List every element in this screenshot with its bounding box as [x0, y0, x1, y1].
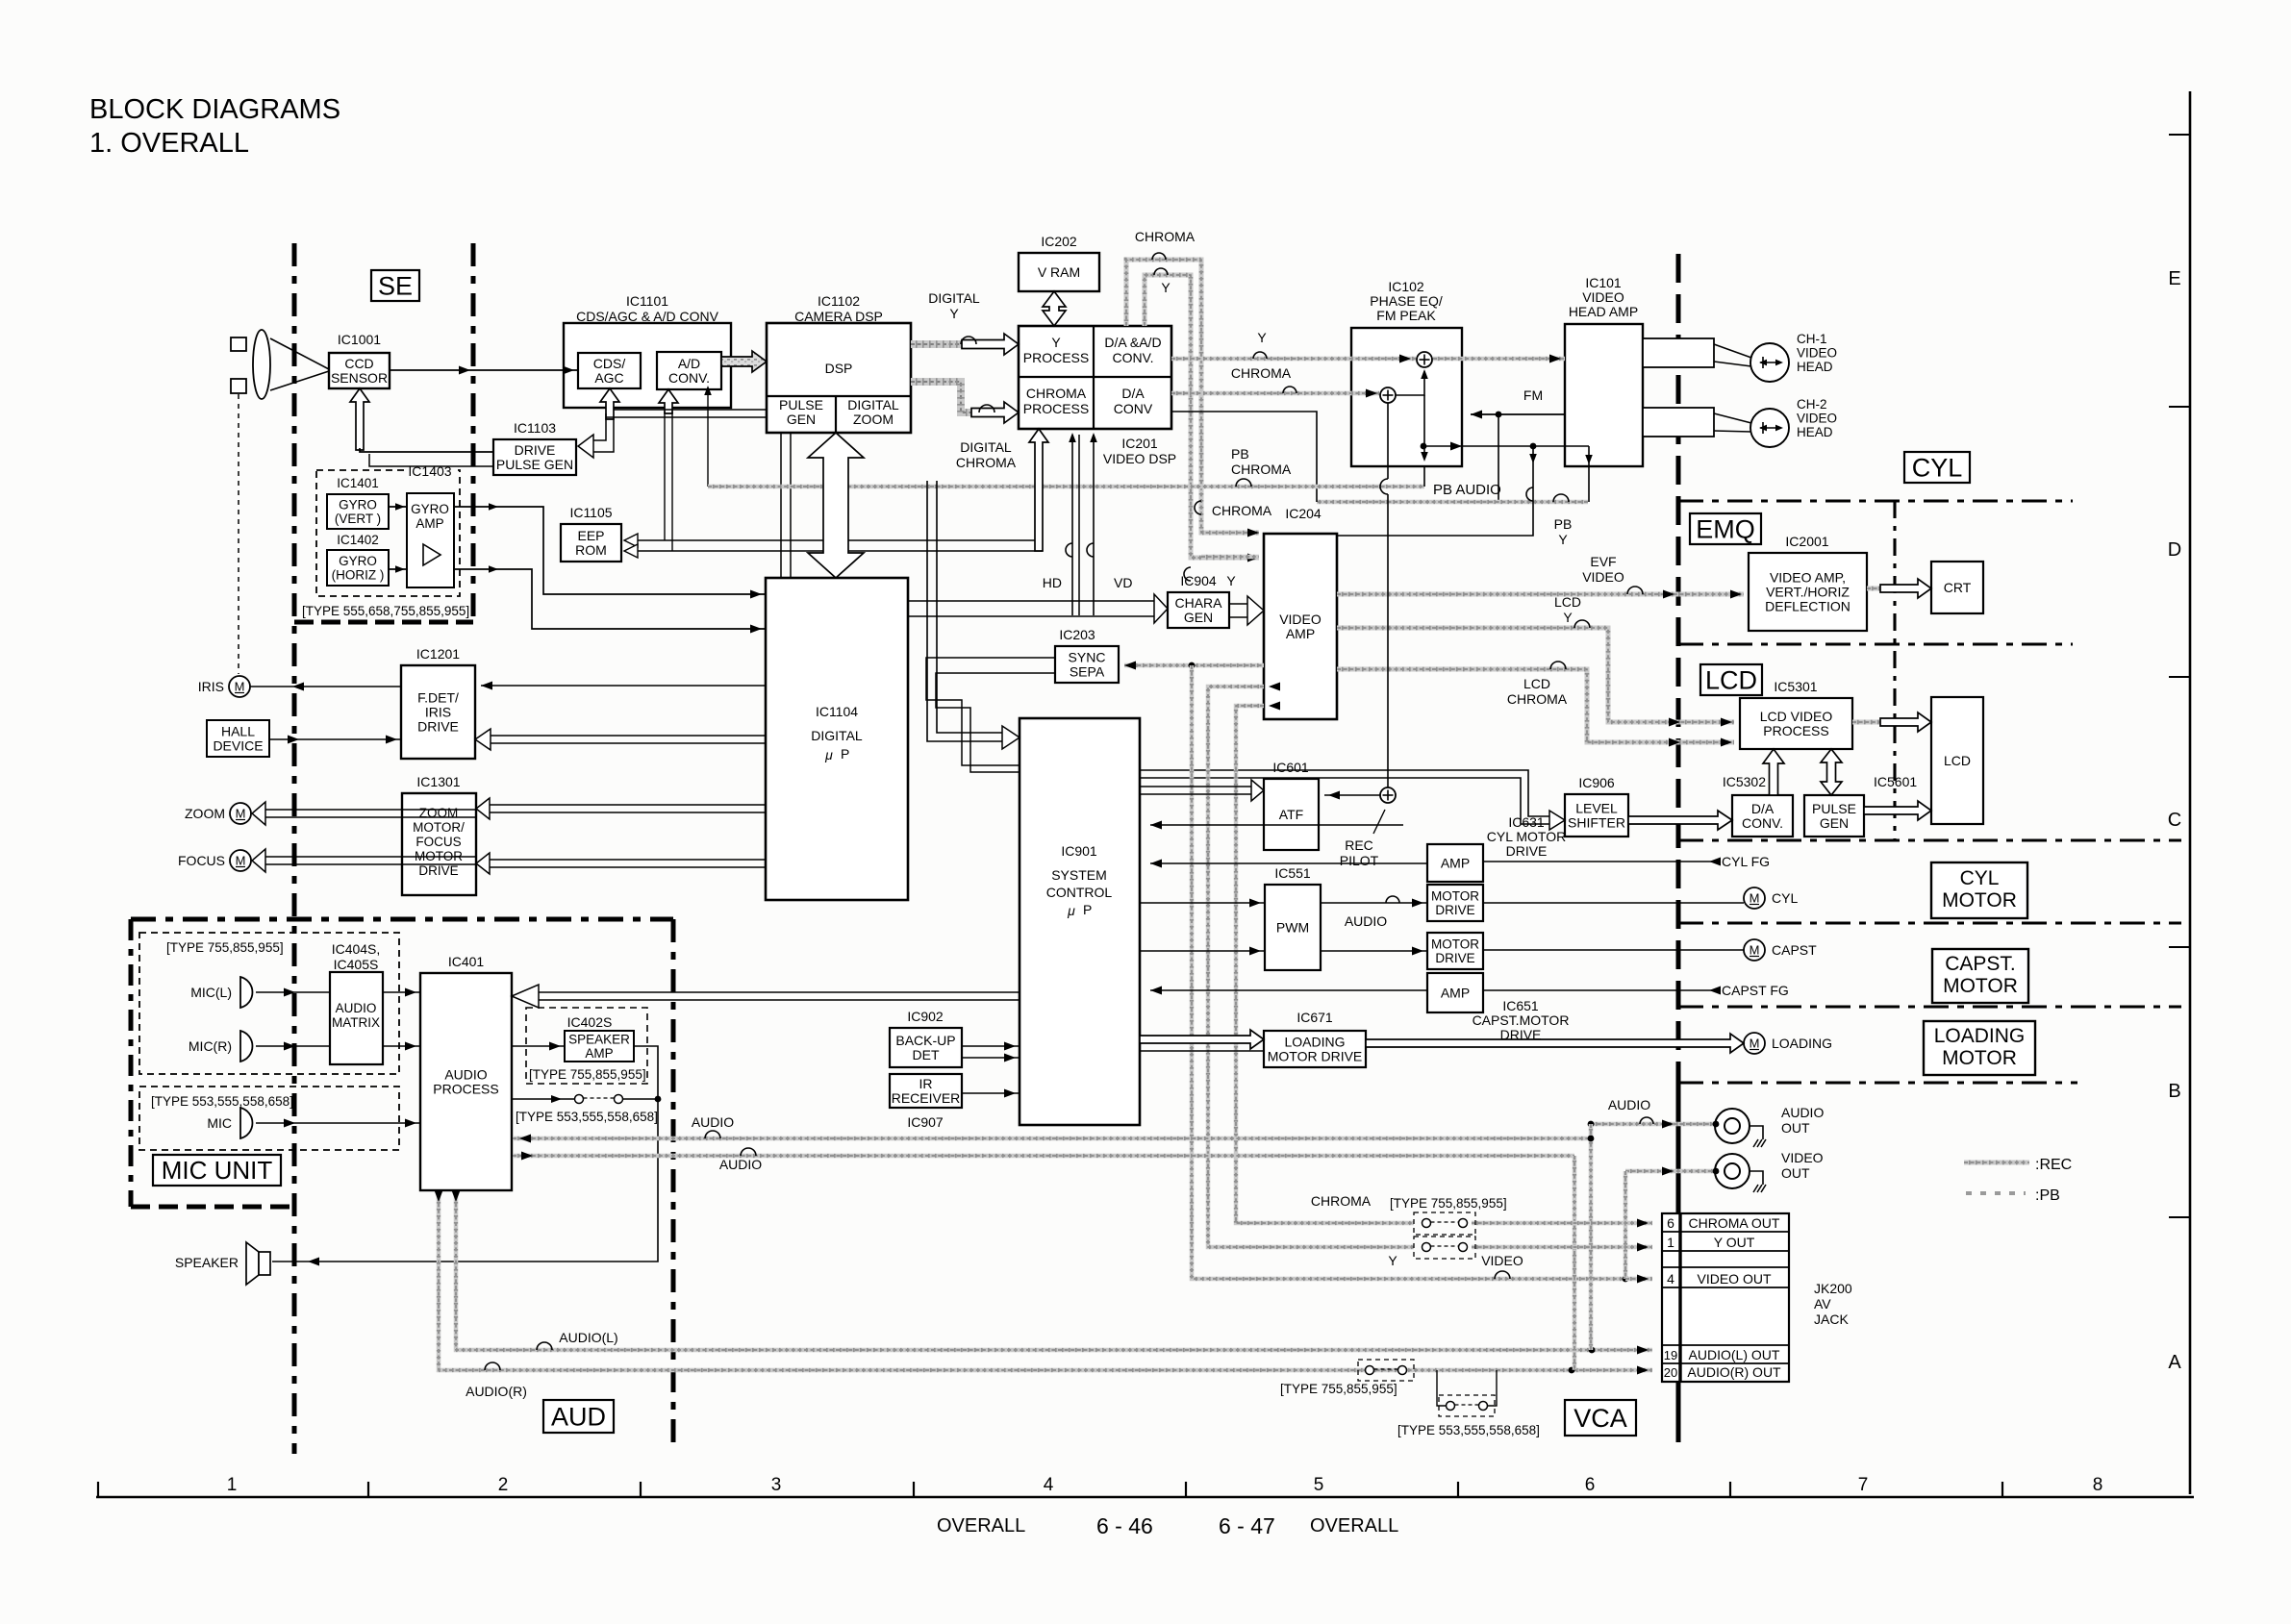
svg-text:CH-2: CH-2	[1797, 397, 1827, 412]
summing circle rec pilot	[1380, 787, 1396, 803]
svg-text:CONV.: CONV.	[1112, 350, 1153, 365]
svg-text:IC907: IC907	[907, 1114, 944, 1130]
ground at audio out	[1750, 1126, 1766, 1147]
svg-text:ATF: ATF	[1279, 807, 1303, 822]
svg-text:IC102: IC102	[1388, 279, 1424, 294]
label IC5302	[1723, 774, 1766, 789]
svg-text:PB: PB	[1554, 516, 1573, 532]
svg-text:DET: DET	[913, 1047, 940, 1062]
svg-text:IC1201: IC1201	[416, 646, 460, 662]
section border CAPST/LOADING divider	[1678, 1005, 2181, 1008]
hollow arrow into EEP ROM lower	[624, 544, 638, 558]
bus audio out feed	[1588, 1120, 1720, 1129]
mic symbol MIC	[207, 1108, 252, 1138]
connector CH-2 VIDEO HEAD	[1750, 397, 1837, 447]
svg-text:3: 3	[771, 1475, 782, 1495]
motor CAPST	[1744, 939, 1817, 961]
wire speaker amp out	[272, 1046, 661, 1266]
right frame with row ticks	[2169, 91, 2190, 1494]
section label MIC UNIT	[153, 1155, 281, 1186]
block IC1101 CDS/AGC & A/D CONV outer	[564, 293, 731, 408]
block IC204 VIDEO AMP	[1264, 506, 1337, 719]
label AUDIO line1	[692, 1114, 734, 1138]
svg-text:VCA: VCA	[1573, 1404, 1627, 1433]
svg-text:CHROMA: CHROMA	[1026, 386, 1087, 401]
svg-text:CYL: CYL	[1960, 867, 2000, 889]
svg-text:AUDIO: AUDIO	[1608, 1097, 1650, 1112]
svg-text:CDS/: CDS/	[593, 356, 626, 371]
svg-text:CHROMA: CHROMA	[956, 455, 1017, 470]
svg-text:CAPST FG: CAPST FG	[1722, 983, 1789, 998]
svg-text:LCD: LCD	[1523, 676, 1550, 691]
svg-text:FM PEAK: FM PEAK	[1376, 308, 1436, 323]
bus AP bottom to AUDIO L	[452, 1190, 1653, 1355]
svg-text:1: 1	[227, 1475, 238, 1495]
svg-text:4: 4	[1044, 1475, 1054, 1495]
hollow arrow CDS shaft into DRIVE PULSE GEN	[578, 413, 614, 458]
svg-text:CONV.: CONV.	[1742, 815, 1783, 831]
bus LCD CHROMA	[1337, 669, 1734, 747]
label CHROMA out line	[1311, 1193, 1372, 1209]
bus DIGITAL Y	[911, 334, 1019, 355]
svg-text:LCD: LCD	[1554, 594, 1581, 610]
svg-text:CHROMA: CHROMA	[1507, 691, 1568, 707]
svg-text:MOTOR: MOTOR	[1942, 889, 2017, 912]
block IC601 ATF	[1264, 760, 1319, 850]
svg-text:SPEAKER: SPEAKER	[568, 1032, 630, 1046]
wire F.DET to IC1104	[481, 682, 766, 690]
svg-text:AUDIO(L) OUT: AUDIO(L) OUT	[1689, 1347, 1780, 1362]
label AUDIO line2	[719, 1148, 762, 1172]
bus Y line sum to IC101	[1433, 355, 1565, 363]
svg-text:LOADING: LOADING	[1934, 1025, 2026, 1047]
label AUDIO pwm	[1345, 896, 1399, 929]
wire inside IC102 down	[1421, 395, 1428, 462]
svg-text:DIGITAL: DIGITAL	[811, 728, 863, 743]
svg-text:IC651: IC651	[1502, 998, 1539, 1013]
svg-text:CRT: CRT	[1944, 580, 1972, 595]
svg-text:LOADING: LOADING	[1284, 1034, 1345, 1049]
wire IC901 loading lower	[1140, 1050, 1264, 1052]
label TYPE 553 switch row	[516, 1110, 658, 1124]
svg-text:6: 6	[1585, 1475, 1596, 1495]
wire VD	[1087, 433, 1097, 615]
wire ir receiver to IC901	[962, 1089, 1020, 1098]
wire amp1 to IC901	[1150, 860, 1427, 868]
svg-text:PROCESS: PROCESS	[1763, 723, 1828, 738]
section border SE bottom	[294, 620, 473, 625]
svg-text:IRIS: IRIS	[425, 704, 451, 719]
bus chroma out line end	[1472, 1219, 1652, 1228]
svg-text:VIDEO: VIDEO	[1279, 612, 1322, 627]
svg-text:P: P	[841, 746, 849, 762]
block IC1402 GYRO (HORIZ)	[327, 533, 389, 586]
svg-text:AMP: AMP	[585, 1046, 613, 1061]
wire backup det to IC901 a	[962, 1042, 1020, 1051]
svg-text:LOADING: LOADING	[1772, 1036, 1832, 1051]
label Y on line	[1253, 330, 1267, 359]
label Y top	[1154, 268, 1171, 295]
bus y out line end	[1472, 1243, 1652, 1252]
footer left OVERALL 6 - 46	[937, 1513, 1153, 1538]
svg-text:CHROMA: CHROMA	[1231, 462, 1292, 477]
svg-text:CONTROL: CONTROL	[1046, 885, 1113, 900]
connector AUDIO OUT jack	[1715, 1105, 1824, 1143]
svg-text:IC904: IC904	[1180, 573, 1217, 588]
mic symbol MIC(L)	[190, 977, 252, 1008]
hollow arrow IC901 to LOADING MOTOR DRIVE	[1140, 1030, 1264, 1049]
svg-text:IC203: IC203	[1059, 627, 1095, 642]
block IC906 LEVEL SHIFTER	[1565, 775, 1628, 837]
block IC1104 DIGITAL uP	[766, 578, 908, 900]
bus Y line IC201 to IC102	[1171, 355, 1416, 363]
wire IC1104 right bus to IC901	[927, 481, 1020, 749]
hollow arrow into F.DET right	[475, 729, 766, 750]
bus IC5301 to LCD	[1852, 712, 1931, 732]
bus video out row	[1625, 1275, 1652, 1284]
hollow arrow A/D CONV to DSP	[721, 351, 767, 372]
svg-text:AUD: AUD	[551, 1402, 606, 1431]
wire FM branch down	[1498, 414, 1499, 502]
svg-text:1. OVERALL: 1. OVERALL	[89, 128, 249, 159]
block SPEAKER AMP	[565, 1031, 634, 1062]
section label CAPST. MOTOR	[1932, 949, 2028, 1003]
svg-text:B: B	[2168, 1081, 2180, 1102]
section label CYL	[1904, 452, 1970, 483]
page title	[89, 94, 340, 159]
svg-text:SEPA: SEPA	[1070, 663, 1105, 679]
svg-text:IC601: IC601	[1272, 760, 1309, 775]
svg-text:CHARA: CHARA	[1174, 595, 1222, 611]
label CAPST FG	[1722, 983, 1789, 998]
section border AUD right vertical	[671, 919, 676, 1452]
svg-text:MIC(R): MIC(R)	[189, 1038, 232, 1054]
label Y out line	[1388, 1253, 1397, 1268]
label REC PILOT	[1340, 810, 1385, 868]
svg-text:AMP: AMP	[1286, 626, 1315, 641]
label AUDIO(R)	[466, 1362, 527, 1399]
dashed container IC402S speaker amp	[526, 1008, 647, 1084]
wire MOTOR DRIVE capst to motor	[1483, 949, 1744, 951]
block IC1001 CCD SENSOR	[329, 332, 390, 388]
svg-text:IC201: IC201	[1121, 436, 1158, 451]
bus audio line 2	[513, 1152, 1574, 1161]
label CYL FG	[1722, 854, 1770, 869]
svg-text:AMP: AMP	[1441, 855, 1470, 870]
wire DRIVE PULSE GEN to CCD feed b	[369, 454, 493, 466]
wire MIC mono	[256, 1119, 420, 1128]
svg-text:Y: Y	[1388, 1253, 1397, 1268]
label IC651 CAPST.MOTOR DRIVE	[1473, 998, 1570, 1042]
svg-text:IC401: IC401	[448, 954, 485, 969]
svg-text:[TYPE 553,555,558,658]: [TYPE 553,555,558,658]	[1397, 1423, 1540, 1437]
label AUDIO jack	[1608, 1097, 1653, 1124]
svg-text:PULSE: PULSE	[779, 397, 823, 412]
svg-text:IC404S,: IC404S,	[332, 941, 381, 957]
block IC902 BACK-UP DET	[890, 1009, 962, 1067]
svg-text:Y: Y	[1558, 532, 1568, 547]
svg-text:CAPST.: CAPST.	[1945, 953, 2016, 975]
hollow arrow zoom motor	[252, 802, 476, 825]
hollow arrow into CHARA GEN	[908, 594, 1168, 623]
bus audio out vertical	[1588, 1124, 1595, 1350]
connector JK200 AV JACK table	[1662, 1213, 1852, 1382]
svg-text:REC: REC	[1345, 837, 1373, 853]
label IC907	[907, 1114, 944, 1130]
svg-text:CCD: CCD	[344, 356, 373, 371]
block IC907 IR RECEIVER	[890, 1074, 962, 1108]
svg-text:19: 19	[1664, 1348, 1677, 1362]
svg-text:VIDEO: VIDEO	[1481, 1253, 1523, 1268]
svg-text:AV: AV	[1814, 1296, 1831, 1312]
block MOTOR DRIVE cyl	[1427, 885, 1483, 921]
svg-text:PHASE EQ/: PHASE EQ/	[1370, 293, 1443, 309]
svg-text:VIDEO OUT: VIDEO OUT	[1697, 1271, 1771, 1287]
footer right 6 - 47 OVERALL	[1219, 1513, 1398, 1538]
svg-text:EMQ: EMQ	[1696, 514, 1755, 543]
svg-text:ZOOM: ZOOM	[853, 412, 894, 427]
wire ATF to summing rec pilot	[1324, 791, 1380, 800]
svg-text:Y OUT: Y OUT	[1714, 1235, 1755, 1250]
section label CYL MOTOR	[1931, 862, 2027, 918]
wire PB Y vertical	[1337, 446, 1537, 536]
svg-text:DRIVE: DRIVE	[515, 442, 556, 458]
svg-text:FOCUS: FOCUS	[415, 835, 461, 849]
svg-text:IC1104: IC1104	[816, 704, 858, 719]
hollow arrow LOADING MOTOR DRIVE to motor	[1366, 1034, 1744, 1053]
svg-text:CHROMA: CHROMA	[1135, 229, 1196, 244]
labels HD VD	[1043, 575, 1133, 590]
label VIDEO out line	[1481, 1253, 1523, 1279]
svg-text:MIC(L): MIC(L)	[190, 985, 232, 1000]
svg-text:V RAM: V RAM	[1038, 264, 1080, 280]
wire MOTOR DRIVE cyl to motor	[1483, 902, 1744, 904]
svg-text:AUDIO: AUDIO	[336, 1001, 377, 1015]
svg-text:M: M	[1750, 1037, 1760, 1051]
svg-text:Y: Y	[1257, 330, 1267, 345]
label TYPE 553 bottom	[1397, 1423, 1540, 1437]
hollow arrow IC901 to AUDIO PROCESS	[512, 985, 1020, 1008]
svg-text:DEVICE: DEVICE	[213, 737, 263, 753]
wire transformer to CH-2 head	[1714, 413, 1751, 432]
hollow arrow D/A CONV to IC5301	[1763, 749, 1784, 795]
wire FM line	[1471, 411, 1565, 419]
hollow arrow focus motor	[252, 849, 476, 872]
svg-text:PB AUDIO: PB AUDIO	[1433, 482, 1501, 498]
label LCD Y	[1554, 594, 1590, 628]
svg-text:HEAD AMP: HEAD AMP	[1569, 304, 1638, 319]
svg-text:LEVEL: LEVEL	[1575, 800, 1618, 815]
svg-text:CHROMA: CHROMA	[1231, 365, 1292, 381]
summing circle CHROMA	[1380, 387, 1396, 403]
svg-text:[TYPE 555,658,755,855,955]: [TYPE 555,658,755,855,955]	[302, 604, 469, 618]
hollow arrow into CDS/AGC bottom	[600, 388, 619, 419]
svg-text:PULSE GEN: PULSE GEN	[496, 457, 573, 472]
svg-text:EEP: EEP	[577, 528, 604, 543]
svg-text:AUDIO(R): AUDIO(R)	[466, 1384, 527, 1399]
svg-text:DIGITAL: DIGITAL	[960, 439, 1012, 455]
block IC1105 EEP ROM	[561, 505, 621, 562]
svg-text:CAPST: CAPST	[1772, 942, 1817, 958]
svg-text:M: M	[236, 807, 246, 821]
svg-text:FOCUS: FOCUS	[178, 853, 225, 868]
block IC671 LOADING MOTOR DRIVE	[1264, 1010, 1366, 1067]
label DIGITAL CHROMA	[956, 405, 1017, 470]
svg-text:A: A	[2168, 1352, 2181, 1373]
label PB AUDIO	[1433, 482, 1501, 498]
svg-text:MOTOR/: MOTOR/	[413, 820, 465, 835]
block IC201 VIDEO DSP quad	[1019, 326, 1176, 466]
wire amp2 to IC901	[1150, 987, 1427, 995]
svg-text:HEAD: HEAD	[1797, 360, 1833, 374]
svg-text:[TYPE 553,555,558,658]: [TYPE 553,555,558,658]	[516, 1110, 658, 1124]
svg-text:OUT: OUT	[1781, 1120, 1810, 1136]
bus IC2001 to CRT	[1867, 579, 1931, 598]
section border EMQ top	[1678, 499, 2073, 502]
svg-text:IC1102: IC1102	[818, 293, 860, 309]
label TYPE 755 bottom	[1280, 1382, 1397, 1396]
svg-text:PROCESS: PROCESS	[433, 1081, 498, 1096]
block LCD panel	[1931, 697, 1983, 824]
svg-text:Y: Y	[1226, 573, 1236, 588]
svg-text:IC5601: IC5601	[1874, 774, 1917, 789]
svg-text:DSP: DSP	[825, 361, 853, 376]
svg-text:A/D: A/D	[678, 356, 700, 371]
svg-text:E: E	[2168, 268, 2180, 289]
ground at video out	[1750, 1171, 1766, 1192]
svg-text:PROCESS: PROCESS	[1023, 401, 1089, 416]
wire DRIVE PULSE GEN to CCD feed	[360, 448, 493, 452]
svg-text:CAMERA DSP: CAMERA DSP	[794, 309, 883, 324]
svg-text:4: 4	[1667, 1271, 1674, 1287]
label FM	[1523, 387, 1543, 403]
svg-text:CDS/AGC & A/D CONV: CDS/AGC & A/D CONV	[576, 309, 718, 324]
double arrow V RAM to IC201	[1043, 291, 1066, 326]
svg-text:GYRO: GYRO	[339, 554, 377, 568]
svg-text:GEN: GEN	[1820, 815, 1849, 831]
wire HD	[1066, 433, 1076, 615]
section border SE left vertical	[292, 243, 297, 1454]
wire gyro amp upper output	[454, 503, 766, 598]
svg-text:VIDEO: VIDEO	[1797, 412, 1837, 426]
legend REC/PB	[1964, 1157, 2072, 1204]
svg-text:F.DET/: F.DET/	[417, 689, 459, 705]
svg-text:MOTOR DRIVE: MOTOR DRIVE	[1268, 1048, 1363, 1063]
svg-text:PULSE: PULSE	[1812, 801, 1856, 816]
svg-text:M: M	[235, 680, 245, 694]
svg-text:IC204: IC204	[1285, 506, 1322, 521]
svg-text:D/A: D/A	[1751, 801, 1775, 816]
svg-text:IC5302: IC5302	[1723, 774, 1766, 789]
wire chroma sum up to Y sum	[1396, 369, 1428, 395]
wire AP to SPEAKER AMP	[512, 1042, 565, 1051]
svg-text:BACK-UP: BACK-UP	[895, 1033, 955, 1048]
section border MIC UNIT left	[129, 919, 134, 1207]
block AMP capst	[1427, 973, 1483, 1012]
label PB CHROMA	[1231, 446, 1292, 477]
hollow arrow into LEVEL SHIFTER	[1140, 770, 1565, 830]
svg-text:Y: Y	[1161, 280, 1171, 295]
block IC1201 F.DET/IRIS DRIVE	[401, 646, 475, 759]
wire IC901 to PWM lower	[1140, 947, 1265, 956]
section label LOADING MOTOR	[1924, 1021, 2035, 1075]
bus Y loop from IC201 top	[1145, 275, 1259, 562]
block IC203 SYNC SEPA	[1055, 627, 1119, 683]
svg-text:M: M	[236, 854, 246, 868]
svg-text:VIDEO DSP: VIDEO DSP	[1103, 451, 1176, 466]
block IC904 CHARA GEN	[1168, 573, 1229, 628]
block IC1401 GYRO (VERT)	[327, 476, 389, 529]
svg-text:1: 1	[1667, 1235, 1674, 1250]
summing circle Y	[1417, 352, 1432, 367]
row letters E D C B A	[2168, 268, 2182, 1373]
svg-text:VIDEO: VIDEO	[1582, 289, 1624, 305]
bus chroma into VIDEO AMP top	[1201, 555, 1259, 560]
connector VIDEO OUT jack	[1715, 1150, 1824, 1188]
section label LCD	[1700, 664, 1762, 695]
label CHROMA near IC204	[1195, 501, 1272, 518]
bus EVF VIDEO	[1337, 590, 1744, 599]
switch audio bottom 553	[1437, 1370, 1497, 1416]
bottom ruler scale 1-8	[96, 1475, 2194, 1497]
svg-text:BLOCK DIAGRAMS: BLOCK DIAGRAMS	[89, 94, 340, 125]
svg-text:CHROMA: CHROMA	[1212, 503, 1272, 518]
svg-text:IC1103: IC1103	[514, 420, 556, 436]
bus CHROMA line IC201 to sum	[1171, 389, 1379, 398]
svg-text:AMP: AMP	[1441, 985, 1470, 1000]
bus sync line	[1124, 662, 1264, 670]
svg-text:VIDEO AMP,: VIDEO AMP,	[1770, 569, 1846, 585]
svg-text:HD: HD	[1043, 575, 1062, 590]
svg-text:IRIS: IRIS	[198, 679, 224, 694]
block IC404S IC405S AUDIO MATRIX	[330, 941, 383, 1064]
hollow arrow IC1104 to IC1301 lower	[476, 853, 766, 874]
hollow arrow IC1104 to IC1301 upper	[476, 798, 766, 819]
bus chroma loop from IC201 top	[1126, 260, 1259, 537]
hollow arrow into CCD SENSOR bottom	[350, 388, 369, 450]
dashed wire lens to iris motor	[238, 394, 239, 674]
svg-text:PB: PB	[1231, 446, 1249, 462]
hollow arrow into CHROMA PROCESS bottom	[1029, 429, 1048, 551]
motor FOCUS	[178, 850, 251, 871]
label IC5601	[1874, 774, 1917, 789]
svg-text:VD: VD	[1114, 575, 1132, 590]
svg-text:VIDEO: VIDEO	[1582, 569, 1624, 585]
svg-text:CYL MOTOR: CYL MOTOR	[1487, 829, 1566, 844]
bus video out feed	[1625, 1167, 1719, 1176]
block AMP cyl	[1427, 844, 1483, 882]
svg-text:DIGITAL: DIGITAL	[847, 397, 899, 412]
svg-text:IC902: IC902	[907, 1009, 944, 1024]
bus PB AUDIO line	[1171, 412, 1593, 502]
svg-text:CHROMA OUT: CHROMA OUT	[1689, 1215, 1780, 1231]
svg-text:IC5301: IC5301	[1774, 679, 1817, 694]
svg-text::PB: :PB	[2035, 1187, 2060, 1204]
svg-text:M: M	[1750, 943, 1760, 958]
svg-text:MATRIX: MATRIX	[332, 1015, 380, 1030]
svg-text:LCD: LCD	[1944, 753, 1971, 768]
svg-text:DIGITAL: DIGITAL	[928, 290, 980, 306]
wire IC901 to ATF hollow	[1140, 780, 1264, 801]
wire cyl fg line	[1483, 858, 1721, 866]
wire sync sepa out left a	[926, 658, 1055, 765]
dashed container mic type 553	[139, 1087, 399, 1150]
wire GYRO HORIZ to GYRO AMP	[389, 565, 407, 573]
svg-text:IC1301: IC1301	[416, 774, 460, 789]
svg-text:DEFLECTION: DEFLECTION	[1765, 598, 1850, 613]
hollow arrow LEVEL SHIFTER to D/A CONV	[1628, 811, 1732, 830]
svg-text:AUDIO: AUDIO	[1345, 913, 1387, 929]
